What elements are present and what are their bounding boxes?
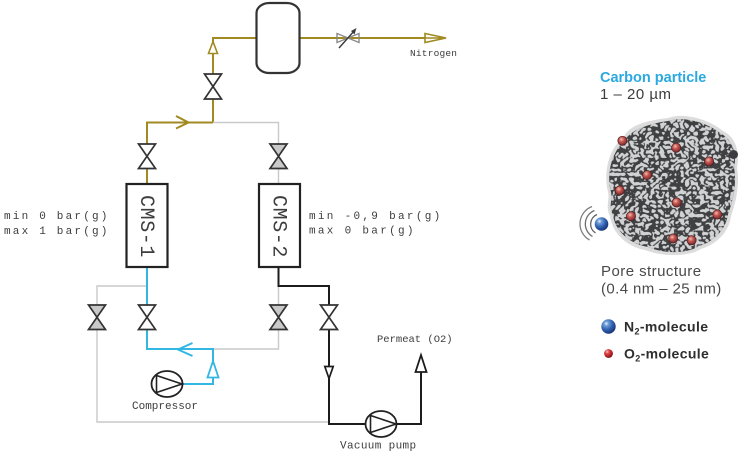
wire: black vacuum line CMS-2 to vacuum pump — [279, 267, 366, 424]
wire: yellow riser corner to buffer tank level — [213, 38, 256, 123]
svg-text:Pore structure: Pore structure — [601, 263, 702, 280]
svg-text:Nitrogen: Nitrogen — [410, 48, 457, 59]
buffer tank B1 — [257, 3, 300, 73]
svg-text:Carbon particle: Carbon particle — [600, 70, 706, 86]
flow arrow up permeate outlet — [416, 355, 427, 372]
O2 molecules on particle — [615, 136, 738, 245]
valve V3 closed gray (left standby) — [89, 305, 106, 330]
wire: cyan feed line compressor to CMS-1 — [147, 267, 213, 384]
valve V4 open (below CMS-1, feed) — [139, 305, 156, 330]
svg-text:CMS-2: CMS-2 — [267, 195, 290, 258]
compressor K1 — [152, 371, 183, 397]
svg-text:1 – 20 µm: 1 – 20 µm — [600, 86, 672, 103]
svg-text:CMS-1: CMS-1 — [134, 195, 157, 258]
flow arrow left on cyan line — [178, 343, 193, 356]
wire: gray standby CMS-2 feed branch — [213, 286, 279, 349]
vacuum pump P1 — [366, 411, 397, 437]
arrowhead nitrogen outlet — [425, 34, 446, 43]
legend N2 molecule — [601, 319, 708, 337]
valve V5 closed gray (below CMS-2) — [270, 305, 287, 330]
wire: yellow product line tank outlet to nitrogen arrow — [300, 37, 444, 39]
svg-text:Compressor: Compressor — [132, 401, 198, 413]
flow arrow right on yellow header — [176, 116, 189, 129]
svg-text:min -0,9 bar(g): min -0,9 bar(g) — [309, 211, 443, 223]
svg-text:max 1 bar(g): max 1 bar(g) — [4, 226, 110, 238]
valve V1 open (above CMS-1) — [139, 144, 156, 169]
svg-text:Permeat (O2): Permeat (O2) — [377, 334, 453, 346]
flow arrow up on yellow riser — [209, 42, 218, 54]
vessel CMS-2 — [259, 184, 300, 267]
svg-text:N2-molecule: N2-molecule — [624, 319, 708, 337]
legend O2 molecule — [604, 346, 709, 364]
svg-text:max 0 bar(g): max 0 bar(g) — [309, 226, 416, 238]
wire: gray standby header to CMS-2 top — [213, 123, 279, 185]
wire: gray standby CMS-1 bottom to vacuum header — [97, 286, 329, 422]
wire: yellow product line CMS-1 top to corner — [147, 123, 213, 185]
svg-text:(0.4 nm – 25 nm): (0.4 nm – 25 nm) — [601, 281, 722, 298]
N2 molecule approaching particle with motion arcs — [580, 207, 608, 241]
valve V2 closed gray (above CMS-2) — [270, 144, 287, 169]
svg-text:min 0 bar(g): min 0 bar(g) — [4, 211, 110, 223]
svg-text:Vacuum pump: Vacuum pump — [340, 441, 416, 452]
wire: black permeate outlet — [397, 358, 421, 424]
flow restrictor on nitrogen line — [337, 28, 359, 48]
valve V6 open (vacuum line) — [321, 305, 338, 330]
flow arrow down on vacuum line — [325, 367, 333, 379]
svg-text:O2-molecule: O2-molecule — [624, 346, 709, 364]
vessel CMS-1 — [127, 184, 168, 267]
valve V0 open (product riser) — [205, 74, 222, 99]
flow arrow up on cyan riser — [208, 361, 219, 378]
carbon particle blob — [606, 116, 738, 255]
